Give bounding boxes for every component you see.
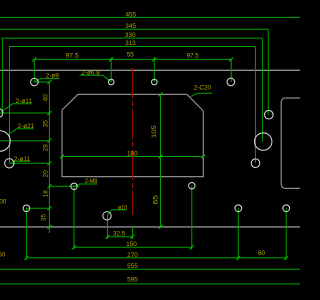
svg-text:2-ø6.8: 2-ø6.8	[81, 70, 100, 77]
svg-text:55: 55	[127, 51, 135, 58]
hole M8 right	[189, 183, 195, 189]
svg-text:150: 150	[0, 251, 6, 258]
connector y140	[0, 140, 49, 142]
plate top edge	[0, 69, 300, 71]
octagon pocket outline	[62, 94, 203, 176]
svg-text:28: 28	[42, 144, 49, 152]
hole 2-o6.8 B	[108, 79, 114, 85]
svg-text:40: 40	[42, 94, 49, 102]
ext line right 313	[254, 47, 256, 164]
dim line 345	[0, 28, 268, 30]
hole F	[235, 205, 242, 212]
svg-text:595: 595	[127, 277, 138, 284]
centerline (red dashed)	[132, 68, 134, 215]
svg-text:2-ø9: 2-ø9	[46, 72, 60, 79]
ext line hole C	[153, 57, 155, 82]
plate bottom edge	[0, 226, 300, 228]
svg-text:100: 100	[0, 198, 7, 205]
ext hole G down	[285, 208, 287, 259]
svg-text:455: 455	[125, 11, 136, 18]
svg-text:150: 150	[126, 241, 137, 248]
svg-text:20: 20	[42, 170, 49, 178]
hole G	[283, 205, 290, 212]
connector y113	[0, 112, 49, 114]
hole 2-o9 A	[31, 78, 39, 86]
tick marks	[24, 57, 288, 259]
hole o21 left edge	[0, 131, 10, 151]
svg-text:60: 60	[258, 250, 266, 257]
leader 2-o11 lower	[12, 161, 31, 162]
dim line 270/60	[26, 257, 286, 259]
connector y186	[49, 185, 79, 187]
ext line right 345	[267, 29, 269, 114]
hole o11 left edge	[0, 109, 3, 118]
ext line left 313	[9, 47, 11, 164]
dim line 455	[0, 16, 300, 18]
dim line 595	[0, 283, 300, 285]
hole o11 right bottom	[251, 159, 260, 168]
ext hole F down	[237, 208, 239, 259]
svg-text:270: 270	[127, 252, 138, 259]
svg-text:345: 345	[125, 23, 136, 30]
ext line left 330	[1, 38, 3, 113]
connector y208	[26, 207, 49, 209]
ext line hole A	[33, 59, 35, 82]
svg-text:35: 35	[41, 214, 48, 222]
leader 2-C20	[191, 93, 213, 96]
dim line 97.5/55/97.5	[34, 58, 231, 60]
dim line 313	[9, 46, 255, 48]
leader 2-o6.8	[80, 75, 112, 82]
ext centre down	[132, 227, 134, 239]
dim line 555	[0, 268, 300, 270]
svg-text:313: 313	[125, 40, 136, 47]
chain line left	[48, 82, 50, 233]
svg-text:35: 35	[42, 120, 49, 128]
svg-text:180: 180	[127, 150, 138, 157]
hole D	[227, 78, 235, 86]
dim line 330	[2, 37, 262, 39]
dim line 32.5	[108, 236, 133, 238]
svg-text:2-M8: 2-M8	[85, 178, 98, 185]
svg-text:ø10: ø10	[118, 204, 127, 211]
svg-text:65: 65	[153, 194, 160, 204]
ext hole M8R down	[191, 186, 193, 250]
pocket outline (right, clipped)	[281, 98, 307, 188]
ext hole o10 down	[107, 216, 109, 239]
svg-text:105: 105	[151, 125, 158, 139]
connector y163	[9, 162, 49, 164]
ext line hole D	[230, 59, 232, 82]
leader 2-o21	[8, 129, 34, 135]
leader 2-M8	[74, 184, 97, 186]
ext hole M8L down	[73, 186, 75, 249]
hole E	[23, 205, 30, 212]
svg-text:18: 18	[42, 190, 49, 198]
ext line right 330	[261, 38, 263, 142]
dim line 150	[74, 246, 192, 248]
chain line right	[160, 94, 162, 227]
svg-text:2-ø21: 2-ø21	[18, 123, 35, 130]
hole o10	[103, 212, 111, 220]
svg-text:97.5: 97.5	[187, 53, 199, 60]
svg-text:555: 555	[127, 263, 138, 270]
leader 2-o9	[35, 79, 60, 82]
hole o21 right	[255, 133, 272, 150]
dim line 180	[62, 156, 203, 158]
hole o11 right top	[265, 110, 274, 119]
svg-text:32.5: 32.5	[113, 230, 125, 237]
svg-text:330: 330	[125, 32, 136, 39]
leader o10	[107, 210, 126, 216]
svg-text:2-C20: 2-C20	[194, 85, 212, 92]
svg-text:2-ø11: 2-ø11	[16, 98, 33, 105]
ext line hole B	[110, 57, 112, 82]
svg-text:97.5: 97.5	[66, 53, 79, 60]
ext hole E down	[25, 208, 27, 259]
hole M8 left	[71, 183, 77, 189]
hole o11 left	[5, 159, 14, 168]
connector y82	[34, 81, 49, 83]
svg-text:2-ø11: 2-ø11	[14, 156, 31, 163]
leader 2-o11 upper	[1, 104, 32, 112]
hole 2-o6.8 C	[152, 79, 158, 85]
